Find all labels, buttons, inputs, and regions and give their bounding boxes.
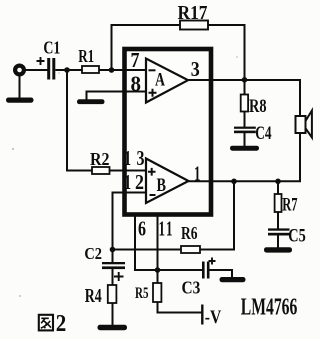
ground bar below C4 — [230, 146, 259, 151]
svg-text:R1: R1 — [78, 46, 94, 66]
wire: output pin 1 row to speaker bottom — [189, 133, 301, 181]
svg-text:B: B — [157, 175, 167, 196]
svg-text:7: 7 — [131, 48, 140, 72]
resistor R5 body — [153, 283, 161, 302]
svg-text:R2: R2 — [90, 149, 110, 169]
node: pin1/R7 junction — [275, 179, 281, 185]
wire: R2 to pin 13 of U1B — [110, 170, 147, 172]
minus sign at U1A inverting input — [149, 69, 156, 71]
svg-text:R7: R7 — [282, 195, 298, 216]
svg-text:LM4766: LM4766 — [241, 295, 297, 321]
svg-text:1: 1 — [159, 217, 166, 241]
ground bar at pin 8 — [77, 99, 105, 104]
svg-text:C4: C4 — [255, 123, 272, 144]
svg-text:C5: C5 — [288, 226, 306, 247]
wire: C3 to ground — [210, 270, 233, 278]
op-amp U1A triangle — [146, 59, 188, 103]
wire: R7 to C5 — [277, 212, 279, 229]
svg-text:C2: C2 — [84, 244, 102, 263]
wire: node down to C2 — [112, 250, 114, 263]
resistor R8 body — [241, 95, 248, 112]
node: pin6/pin11/C3 junction — [155, 267, 161, 273]
resistor R6 body — [181, 246, 200, 253]
wire: R1 to pin 7 of U1A — [99, 69, 147, 71]
svg-text:R6: R6 — [181, 223, 198, 243]
plus sign at U1A non-inverting input — [149, 89, 157, 97]
wire: pin1 node down to R7 — [277, 181, 279, 194]
speaker BL cone — [306, 111, 312, 138]
svg-text:A: A — [155, 70, 165, 91]
svg-text:R8: R8 — [249, 96, 267, 117]
polarity plus of C3 — [209, 258, 216, 265]
wire: C2 to R4 — [112, 269, 114, 285]
wire: pin 6 down and over to pin 11 line — [135, 216, 158, 270]
wire: top feedback run from node A1 to node A2 — [112, 25, 245, 80]
resistor R17 body — [180, 21, 208, 30]
svg-text:3: 3 — [137, 146, 145, 170]
node: R1/R17/pin7 junction — [109, 67, 115, 73]
node: pin3/R17/R8 junction — [242, 77, 248, 83]
capacitor C2 plates — [102, 262, 125, 264]
node: C1/R1/R2 junction — [64, 67, 70, 73]
wire: input terminal down to ground — [19, 74, 21, 98]
ground bar at input — [6, 98, 34, 103]
faint scan speck — [12, 148, 14, 150]
wire: output pin 3 row to speaker top — [188, 80, 300, 117]
wire: R6 to C2 top node — [113, 249, 182, 251]
svg-text:1: 1 — [125, 146, 132, 170]
op-amp U1B triangle — [146, 159, 189, 204]
capacitor C3 plates — [202, 262, 205, 279]
svg-text:R4: R4 — [85, 286, 102, 307]
minus sign at U1B inverting input — [150, 194, 156, 196]
wire: feedback drop from pin1 row to R6 — [200, 181, 234, 249]
capacitor C1 plates — [47, 58, 50, 80]
polarity plus of C1 — [37, 57, 45, 65]
svg-text:R5: R5 — [135, 285, 149, 302]
svg-text:R17: R17 — [178, 2, 208, 24]
wire: R8 to C4 — [244, 112, 246, 128]
wire: signal node down to R2 — [67, 70, 92, 171]
svg-text:6: 6 — [138, 217, 146, 241]
wire: pin 12 of U1B left and down to feedback node — [113, 193, 147, 250]
wire: C4 to ground — [244, 133, 246, 147]
speaker BL driver box — [296, 116, 306, 133]
resistor R7 body — [275, 194, 282, 212]
ground bar below R4 — [98, 325, 128, 330]
wire: R4 to ground — [112, 303, 114, 326]
wire: input terminal to C1 — [25, 69, 48, 71]
node: C2/R6/pin12 junction — [110, 247, 116, 253]
polarity plus of C2 — [114, 272, 124, 281]
wire: pin 11 down to R5 — [157, 216, 159, 283]
svg-text:C1: C1 — [43, 37, 60, 57]
svg-text:1: 1 — [166, 217, 173, 241]
ground bar at C3 — [220, 277, 246, 282]
ground bar below C5 — [264, 247, 292, 252]
-V supply terminal bar — [201, 305, 203, 325]
figure caption: character tu (figure) drawn as strokes — [39, 315, 53, 331]
wire: C1 to R1 with node — [55, 69, 82, 71]
svg-text:-V: -V — [205, 308, 222, 328]
wire: R5 down and right to -V terminal — [158, 302, 202, 313]
svg-text:3: 3 — [191, 57, 200, 81]
wire: node down to R8 — [244, 80, 246, 95]
node: pin1/R6 feedback junction — [231, 179, 237, 185]
wire: C5 to ground — [277, 236, 279, 249]
plus sign at U1B non-inverting input — [148, 168, 156, 176]
svg-text:1: 1 — [125, 170, 132, 194]
svg-text:C3: C3 — [182, 278, 201, 298]
resistor R4 body — [108, 285, 117, 303]
resistor R2 body — [92, 167, 110, 174]
resistor R1 body — [82, 66, 99, 73]
op-amp U1 IC outline (LM4766 package box) — [125, 49, 212, 215]
input terminal J1 — [15, 66, 24, 75]
wire: node to C3 — [158, 269, 203, 271]
svg-text:2: 2 — [56, 311, 67, 337]
wire: pin 8 to ground — [87, 92, 147, 100]
capacitor C4 plates — [234, 127, 256, 129]
svg-text:8: 8 — [131, 71, 142, 96]
capacitor C5 plates — [268, 228, 290, 230]
svg-text:2: 2 — [135, 170, 144, 194]
